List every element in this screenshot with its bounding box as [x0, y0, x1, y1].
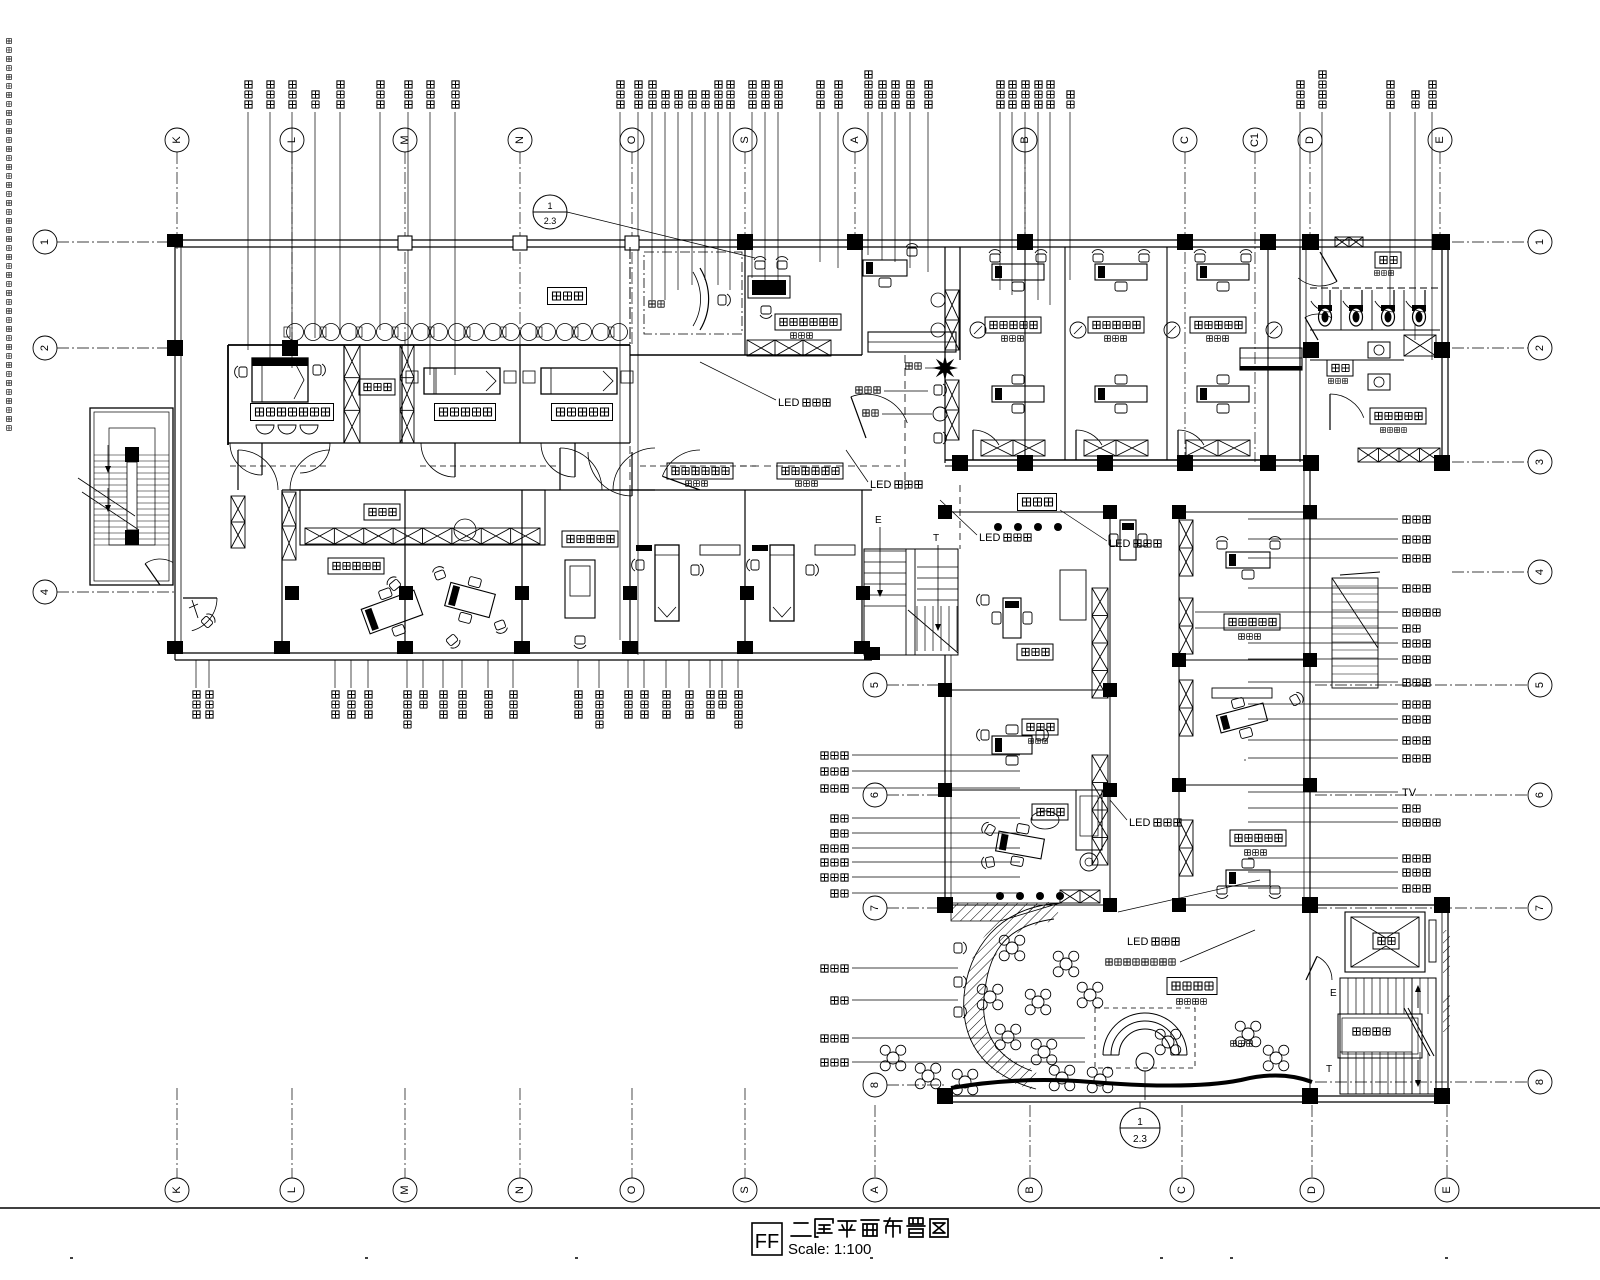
design studio beds [655, 545, 679, 621]
corridor-2 boxed label 通道二 [548, 288, 587, 305]
left wing columns [167, 340, 183, 356]
plant star [932, 355, 958, 381]
整形工作室6 boxed label [1224, 614, 1280, 630]
upper band room partition walls [228, 344, 630, 346]
院长室 dot row [996, 892, 1004, 900]
bottom furniture leader lines with vertical labels [195, 660, 197, 688]
整形工作室2 label [1088, 317, 1144, 333]
top-right rooms walls [944, 247, 946, 463]
svg-text:S: S [739, 1186, 751, 1193]
reception misc label [1231, 1041, 1237, 1047]
left column partitions [945, 689, 1110, 691]
男更衣 boxed label [364, 504, 400, 520]
svg-text:7: 7 [1534, 905, 1546, 911]
美容前厅 boxed label [1167, 978, 1217, 995]
reception arc desk [1095, 1008, 1195, 1068]
svg-text:O: O [626, 1185, 638, 1194]
svg-text:8: 8 [869, 1082, 881, 1088]
structural columns row [285, 586, 299, 600]
lower band partitions [281, 490, 283, 650]
exterior side stair [1332, 578, 1378, 688]
right side furniture labels [1248, 518, 1398, 520]
corridor-1 door arcs [230, 443, 262, 475]
closet boxed label 女更衣 [359, 379, 395, 395]
svg-text:K: K [171, 136, 183, 144]
svg-text:N: N [514, 136, 526, 144]
设计工作室2 label [777, 463, 843, 479]
room 文秀治疗室2 bed [541, 368, 617, 394]
outer walls [175, 239, 1448, 241]
room right of 设计工作室1 [863, 260, 907, 287]
lower wing main walls [944, 655, 946, 905]
toilet bottom hatch [1358, 448, 1440, 462]
整形工作室1 cabinet [981, 440, 1045, 456]
整形工作室2 door [1076, 430, 1102, 445]
room2 boxed label [435, 404, 496, 421]
svg-text:D: D [1306, 1186, 1318, 1194]
right column partitions [1179, 659, 1310, 661]
massage chair room [565, 560, 595, 618]
整形工作室10 boxed label [1230, 830, 1286, 846]
svg-text:O: O [626, 135, 638, 144]
女厕 boxed label [1375, 252, 1401, 268]
reception round tables [1006, 942, 1018, 954]
svg-text:8: 8 [1534, 1079, 1546, 1085]
lower wing left cabinets [1092, 755, 1108, 865]
room 纹绣咨询设计室 furniture [252, 358, 308, 402]
svg-text:1: 1 [1534, 239, 1546, 245]
助理室 furniture [992, 598, 1032, 638]
整形工作室1 door [973, 430, 999, 445]
svg-text:E: E [1441, 1186, 1453, 1193]
svg-text:5: 5 [869, 682, 881, 688]
left margin vertical annotation text [7, 39, 12, 44]
秘书室 furniture [992, 725, 1032, 765]
far-left staircase annex [90, 408, 173, 585]
reception wavy boundary [951, 1075, 1312, 1088]
svg-text:C: C [1176, 1186, 1188, 1194]
room1 boxed label [251, 404, 334, 421]
整形工作室3 desks [1197, 264, 1249, 291]
closet 男更衣 with hatch [300, 490, 545, 545]
svg-text:E: E [875, 515, 882, 526]
svg-text:2: 2 [39, 345, 51, 351]
top-center block walls [629, 247, 631, 355]
hall dashes and doors [629, 420, 631, 520]
title FF box [752, 1223, 782, 1255]
bottom-left room door and chair [192, 598, 217, 631]
svg-text:2.3: 2.3 [544, 216, 557, 226]
秘书室 boxed label [1022, 719, 1058, 735]
left end wardrobe band [231, 496, 245, 548]
svg-text:T: T [933, 533, 939, 544]
room 文秀治疗室1 bed [424, 368, 500, 394]
svg-text:1: 1 [547, 201, 552, 211]
svg-text:6: 6 [1534, 792, 1546, 798]
callout circle top [533, 195, 567, 229]
整形工作室3 door [1178, 430, 1204, 445]
svg-text:Scale: 1:100: Scale: 1:100 [788, 1241, 871, 1258]
front reception curved desk [644, 252, 742, 334]
reception curved hatched wall [974, 911, 1058, 1080]
svg-text:4: 4 [1534, 569, 1546, 575]
通道一 boxed label [1018, 494, 1057, 511]
bottom grid bubbles and axis lines [165, 1178, 189, 1202]
inner-left lower-wing grid bubbles [863, 673, 887, 697]
星创工作室 label [328, 558, 384, 574]
toilet doors [1298, 278, 1337, 286]
设计工作室1 furniture [752, 280, 786, 295]
left-of-lower-wing furniture labels [821, 752, 828, 759]
助理室 boxed label [1017, 644, 1053, 660]
room3 boxed label [552, 404, 613, 421]
男厕 boxed label [1327, 360, 1353, 376]
svg-text:S: S [739, 136, 751, 143]
svg-text:C1: C1 [1249, 133, 1261, 147]
svg-text:2: 2 [1534, 345, 1546, 351]
corridor sofa [1240, 348, 1302, 370]
svg-text:T: T [1326, 1064, 1332, 1075]
svg-text:D: D [1304, 136, 1316, 144]
bottom-right staircase [1340, 978, 1436, 1094]
整形工作室2 desks [1095, 264, 1147, 291]
bottom-right block walls [1310, 904, 1448, 906]
svg-text:FF: FF [755, 1231, 779, 1253]
left grid bubbles [33, 230, 57, 254]
right column room furniture [1226, 552, 1270, 579]
svg-text:LED: LED [870, 479, 891, 491]
svg-text:TV: TV [1402, 787, 1417, 799]
svg-text:5: 5 [1534, 682, 1546, 688]
svg-text:N: N [514, 1186, 526, 1194]
整形工作室3 label [1190, 317, 1246, 333]
washbasins [1368, 342, 1390, 358]
svg-text:C: C [1179, 136, 1191, 144]
svg-text:1: 1 [1137, 1117, 1143, 1128]
reception wall chairs [954, 942, 966, 954]
svg-text:LED: LED [778, 397, 799, 409]
central staircase [864, 549, 958, 655]
toilet columns [1303, 234, 1319, 250]
整形工作室3 cabinet [1186, 440, 1250, 456]
svg-text:E: E [1434, 136, 1446, 143]
right grid bubbles [1528, 230, 1552, 254]
bottom title separator line [0, 1207, 1600, 1209]
hall chair labels 工艺/休闲椅/圆几 [906, 363, 912, 369]
bottom block columns [1302, 897, 1318, 913]
院长室 furniture [994, 820, 1047, 869]
corridor wall circles [970, 322, 986, 338]
toilets [1318, 305, 1332, 326]
room desk with round table [454, 519, 476, 541]
svg-text:6: 6 [869, 792, 881, 798]
svg-text:LED: LED [979, 532, 1000, 544]
elevator [1345, 912, 1425, 972]
svg-text:A: A [869, 1186, 881, 1194]
svg-text:A: A [849, 136, 861, 144]
svg-text:B: B [1024, 1186, 1036, 1193]
title text 二层平面布置图 [791, 1223, 811, 1236]
svg-text:7: 7 [869, 905, 881, 911]
callout circle bottom [1120, 1108, 1160, 1148]
院长室 boxed label [1032, 804, 1068, 820]
svg-text:LED: LED [1129, 817, 1150, 829]
设计工作室3 label [667, 463, 733, 479]
整形工作室2 cabinet [1084, 440, 1148, 456]
shaft xbox [1404, 335, 1436, 356]
svg-text:L: L [286, 1187, 298, 1193]
svg-text:M: M [399, 1185, 411, 1194]
top grid bubbles and axis lines [165, 128, 189, 152]
星创工作室 desk [357, 580, 426, 644]
整形工作室1 label [985, 317, 1041, 333]
corridor dashes [230, 465, 330, 467]
svg-text:K: K [171, 1186, 183, 1194]
svg-text:1: 1 [39, 239, 51, 245]
top furniture leader lines with vertical labels [247, 112, 249, 350]
svg-text:4: 4 [39, 589, 51, 595]
星创工作室2 label [562, 531, 618, 547]
top wall columns [398, 236, 412, 250]
设计工作室1 boxed label [775, 314, 841, 330]
svg-text:3: 3 [1534, 459, 1546, 465]
整形工作室1 desks [992, 264, 1044, 291]
svg-text:LED: LED [1127, 936, 1148, 948]
right room sofas [1212, 688, 1272, 698]
更衣/化妆间 boxed label [1370, 408, 1426, 424]
svg-text:M: M [399, 135, 411, 144]
toilet block walls [1299, 247, 1301, 462]
svg-text:2.3: 2.3 [1133, 1134, 1147, 1145]
svg-text:E: E [1330, 988, 1337, 999]
lower wing columns [952, 455, 968, 471]
terrace chair row [287, 324, 304, 341]
